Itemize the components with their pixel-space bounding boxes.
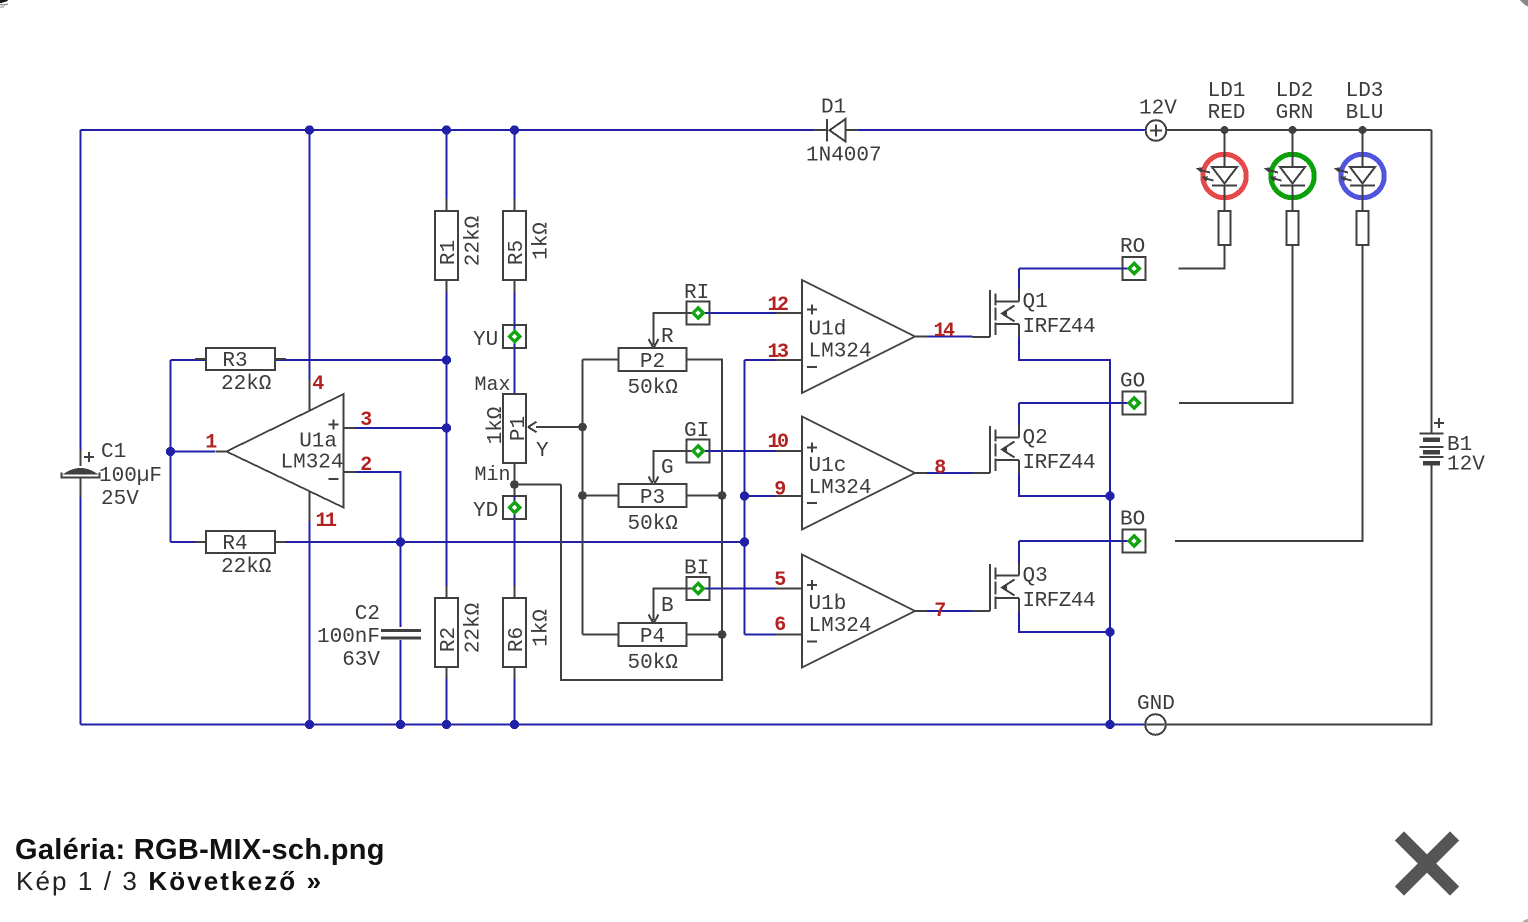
wire R6 bottom <box>514 667 516 725</box>
svg-text:YU: YU <box>473 329 498 352</box>
svg-text:10: 10 <box>767 431 788 454</box>
P1 wiper arrowhead <box>528 422 537 432</box>
svg-text:BI: BI <box>684 558 709 581</box>
LED series resistor for LD2 <box>1287 211 1299 245</box>
op-amp U1b <box>776 555 927 668</box>
wire top 12V bus left of D1 <box>81 129 816 131</box>
svg-text:R: R <box>661 326 674 349</box>
junction Y net / P3 left <box>578 491 587 500</box>
junction source bus / Q3 <box>1105 627 1114 636</box>
svg-text:1N4007: 1N4007 <box>806 145 882 168</box>
junction inverting bus / pin9 <box>740 491 749 500</box>
svg-text:13: 13 <box>767 341 788 364</box>
wire Q3 drain up <box>1018 541 1020 563</box>
svg-text:12V: 12V <box>1447 454 1485 477</box>
svg-text:Y: Y <box>536 440 549 463</box>
svg-text:U1c: U1c <box>809 455 847 478</box>
junction pin3 / node A <box>442 423 451 432</box>
resistor R4 <box>195 531 286 579</box>
svg-text:P4: P4 <box>640 626 665 649</box>
wire YU pad to P1 Max <box>514 348 516 394</box>
junction bottom bus / R2 <box>442 720 451 729</box>
svg-text:P2: P2 <box>640 351 665 374</box>
wire U1a pin3 to node A <box>355 427 447 429</box>
svg-text:LD3: LD3 <box>1346 80 1384 103</box>
wire LD2 resistor to GO net <box>1179 245 1293 403</box>
LED LD2 <box>1264 80 1314 245</box>
wire P4 left <box>583 634 619 636</box>
svg-text:50kΩ: 50kΩ <box>628 377 678 400</box>
supply symbol 12V <box>1139 98 1177 141</box>
junction LED rail LD1 <box>1221 126 1229 134</box>
resistor R2 <box>435 586 486 679</box>
svg-text:YD: YD <box>473 500 498 523</box>
svg-text:R2: R2 <box>438 627 461 652</box>
svg-text:6: 6 <box>774 614 785 637</box>
wire P1 wiper Y node <box>536 426 583 428</box>
transistor Q2 <box>973 426 1020 473</box>
transistor Q1 <box>973 290 1020 337</box>
wire Q2 drain to GO pad <box>1019 402 1123 404</box>
resistor R6 <box>503 586 554 679</box>
resistor R1 <box>435 199 486 292</box>
potentiometer P3 <box>619 457 687 536</box>
wire R3-R4 left vertical <box>170 360 172 542</box>
junction P1 Min node <box>510 480 519 489</box>
svg-text:9: 9 <box>774 479 785 502</box>
op-amp U1c <box>776 417 927 530</box>
wire P3 right <box>687 495 723 497</box>
svg-text:11: 11 <box>315 510 337 533</box>
svg-text:R3: R3 <box>222 350 247 373</box>
svg-text:22kΩ: 22kΩ <box>463 216 486 266</box>
svg-text:IRFZ44: IRFZ44 <box>1023 316 1096 339</box>
svg-text:U1d: U1d <box>809 319 847 342</box>
svg-text:GND: GND <box>1137 693 1175 716</box>
pad YU <box>473 325 526 352</box>
wire GI pad to U1c pin10 <box>710 450 776 452</box>
svg-text:1kΩ: 1kΩ <box>531 222 554 260</box>
wire Q1 source to source bus <box>1019 338 1110 725</box>
wire P4 right <box>687 634 723 636</box>
close button X <box>1387 823 1467 903</box>
transistor Q3 <box>973 564 1020 611</box>
wire bottom GND bus <box>81 724 1145 726</box>
wire R5 to YU pad <box>514 280 516 325</box>
capacitor C2 <box>317 603 421 672</box>
resistor R3 <box>195 348 286 396</box>
svg-text:LM324: LM324 <box>809 615 872 638</box>
svg-text:12: 12 <box>767 294 788 317</box>
wire top bus D1 to 12V symbol <box>858 129 1146 131</box>
svg-text:1kΩ: 1kΩ <box>485 407 508 445</box>
wiper arrowheads P2 P3 P4 <box>649 339 659 348</box>
pad YD <box>473 496 526 523</box>
svg-text:LD2: LD2 <box>1276 80 1314 103</box>
LED LD3 <box>1334 80 1384 245</box>
junction top bus / R1 <box>442 125 451 134</box>
wire Q2 source stub <box>1018 460 1020 474</box>
wire U1a pin4 stub <box>309 380 311 412</box>
op-amp U1d <box>776 280 927 393</box>
wire LD3 resistor to BO net <box>1175 245 1363 541</box>
wire R1 bottom / node A column <box>446 280 448 598</box>
wire Min node to pot frame <box>515 484 562 486</box>
svg-text:50kΩ: 50kΩ <box>628 652 678 675</box>
wire U1d pin14 to Q1 gate <box>927 336 973 338</box>
wire battery positive <box>1431 130 1433 433</box>
gallery title text <box>15 834 385 867</box>
svg-text:2: 2 <box>360 454 371 477</box>
wire U1a pin2 down to feedback net <box>355 472 401 542</box>
svg-text:IRFZ44: IRFZ44 <box>1023 590 1096 613</box>
wire Q2 drain stub <box>1018 425 1020 438</box>
wire U1b pin6 <box>745 634 777 636</box>
svg-text:8: 8 <box>934 457 945 480</box>
svg-text:LM324: LM324 <box>809 341 872 364</box>
svg-text:R5: R5 <box>506 240 529 265</box>
svg-text:7: 7 <box>934 600 945 623</box>
junction inverting bus / feedback net <box>740 537 749 546</box>
svg-text:4: 4 <box>312 373 324 396</box>
svg-text:1kΩ: 1kΩ <box>531 609 554 647</box>
junction pin2 / feedback net <box>396 537 405 546</box>
svg-text:GRN: GRN <box>1276 102 1314 125</box>
svg-text:G: G <box>661 457 674 480</box>
wire BI pad to U1b pin5 <box>710 588 776 590</box>
battery B1 <box>1420 418 1445 463</box>
svg-text:IRFZ44: IRFZ44 <box>1023 452 1096 475</box>
pad GO <box>1120 371 1146 415</box>
svg-text:BLU: BLU <box>1346 102 1384 125</box>
wire U1a pin11 to bottom bus <box>309 521 311 725</box>
wire Q1 drain to RO pad <box>1019 268 1123 270</box>
svg-text:GO: GO <box>1120 371 1145 394</box>
potentiometer P2 <box>619 326 687 400</box>
capacitor C1 <box>62 441 163 511</box>
wire R4 right feedback net <box>275 541 745 543</box>
diode D1 <box>806 97 882 168</box>
svg-text:Q2: Q2 <box>1023 427 1048 450</box>
wire Q2 source to source bus <box>1019 474 1110 497</box>
svg-text:63V: 63V <box>342 649 380 672</box>
svg-text:P3: P3 <box>640 487 665 510</box>
wire R5 top <box>514 130 516 211</box>
svg-text:Max: Max <box>474 374 510 397</box>
ground symbol GND <box>1137 693 1175 735</box>
page corner artifact bottom-right <box>1522 919 1528 922</box>
wire Q1 drain stub <box>1018 289 1020 302</box>
svg-text:3: 3 <box>360 409 371 432</box>
wire C2 top <box>400 542 402 627</box>
svg-text:LM324: LM324 <box>280 452 343 475</box>
svg-text:U1b: U1b <box>809 593 847 616</box>
resistor R5 <box>503 199 554 292</box>
wire U1c pin8 to Q2 gate <box>927 472 973 474</box>
wire U1d pin13 <box>745 359 777 361</box>
svg-text:LM324: LM324 <box>809 477 872 500</box>
svg-text:Q3: Q3 <box>1023 565 1048 588</box>
wire BI pad to P4 wiper <box>654 589 687 621</box>
svg-text:25V: 25V <box>101 488 139 511</box>
page corner artifact top-right <box>1520 0 1528 7</box>
potentiometer P4 <box>619 595 687 675</box>
svg-text:BO: BO <box>1120 509 1145 532</box>
wire U1b pin7 to Q3 gate <box>927 610 973 612</box>
pad GI <box>684 420 710 463</box>
wire Q1 source stub <box>1018 324 1020 338</box>
junction Min frame / P3 right <box>718 491 727 500</box>
junction Min frame / P4 right <box>718 630 727 639</box>
wire GI pad to P3 wiper <box>654 451 687 482</box>
svg-text:RI: RI <box>684 282 709 305</box>
svg-text:100nF: 100nF <box>317 626 380 649</box>
svg-text:P1: P1 <box>508 416 531 441</box>
wire U1a pin11 stub <box>309 490 311 521</box>
svg-text:GI: GI <box>684 420 709 443</box>
junction top bus / U1a pin4 <box>305 125 314 134</box>
wire RI pad to U1d pin12 <box>710 312 776 314</box>
junction LED rail LD3 <box>1359 126 1367 134</box>
wire U1a output pin1 <box>171 451 216 453</box>
wire R4 left <box>171 541 207 543</box>
svg-text:Q1: Q1 <box>1023 291 1048 314</box>
wire R2 bottom <box>446 667 448 725</box>
wire U1a pin4 to top bus <box>309 130 311 380</box>
junction source bus / bottom bus <box>1105 720 1114 729</box>
svg-text:U1a: U1a <box>299 431 337 454</box>
svg-text:100µF: 100µF <box>99 465 162 488</box>
svg-text:R4: R4 <box>222 533 247 556</box>
wire P2 left <box>583 359 619 361</box>
svg-text:C2: C2 <box>355 603 380 626</box>
junction source bus / Q2 <box>1105 491 1114 500</box>
svg-text:R1: R1 <box>438 240 461 265</box>
pad RI <box>684 282 710 325</box>
wire R3 left <box>171 359 207 361</box>
junction top bus / R5 <box>510 125 519 134</box>
wire Q3 source stub <box>1018 598 1020 612</box>
page corner artifact top-left <box>0 0 9 3</box>
junction bottom bus / pin11 <box>305 720 314 729</box>
pad BI <box>684 558 710 601</box>
wire C1 left vertical to bottom bus <box>80 497 82 725</box>
svg-text:22kΩ: 22kΩ <box>221 373 271 396</box>
wire Q2 drain up <box>1018 403 1020 425</box>
junction R3 / node A <box>442 355 451 364</box>
svg-text:C1: C1 <box>101 441 126 464</box>
svg-text:RO: RO <box>1120 236 1145 259</box>
wire C2 bottom <box>400 640 402 725</box>
wire battery negative to GND <box>1166 465 1432 725</box>
svg-text:5: 5 <box>774 569 785 592</box>
gallery navigation text <box>16 866 323 897</box>
svg-text:B: B <box>661 595 674 618</box>
wire LED supply rail <box>1167 129 1432 131</box>
wire R3 right to node A <box>275 359 447 361</box>
junction bottom bus / C2 <box>396 720 405 729</box>
wire Q3 drain stub <box>1018 563 1020 576</box>
svg-text:Min: Min <box>474 464 510 487</box>
junction Y net / P1 wiper <box>578 423 587 432</box>
wire YD pad to R6 <box>514 519 516 598</box>
junction node pin1 <box>166 447 175 456</box>
wire C1 left vertical from top bus <box>80 130 82 450</box>
LED series resistor for LD3 <box>1357 211 1369 245</box>
svg-text:R6: R6 <box>506 627 529 652</box>
pad RO <box>1120 236 1146 280</box>
svg-text:22kΩ: 22kΩ <box>221 556 271 579</box>
wire Q1 drain up <box>1018 269 1020 290</box>
op-amp U1a <box>216 394 356 508</box>
svg-text:D1: D1 <box>821 97 846 120</box>
wire Q3 source to source bus <box>1019 612 1110 633</box>
wire pot frame Min net <box>561 360 722 681</box>
wire LD1 resistor to RO net <box>1179 245 1225 269</box>
wire P3 left <box>583 495 619 497</box>
wire P1 Min to YD pad <box>514 463 516 496</box>
svg-text:LD1: LD1 <box>1208 80 1246 103</box>
LED LD1 <box>1196 80 1246 245</box>
wire R1 top <box>446 130 448 211</box>
wire inverting-input bus vertical <box>744 360 746 635</box>
svg-text:14: 14 <box>933 320 955 343</box>
wire RI pad to P2 wiper <box>654 313 687 345</box>
junction bottom bus / R6 <box>510 720 519 729</box>
svg-text:50kΩ: 50kΩ <box>628 513 678 536</box>
junction LED rail LD2 <box>1289 126 1297 134</box>
wire Q3 drain to BO pad <box>1019 540 1123 542</box>
svg-text:1: 1 <box>205 432 217 455</box>
svg-text:12V: 12V <box>1139 98 1177 121</box>
LED series resistor for LD1 <box>1219 211 1231 245</box>
pad BO <box>1120 509 1146 553</box>
potentiometer P1 <box>474 374 549 487</box>
wire pot left-side vertical Y net <box>582 360 584 635</box>
svg-text:RED: RED <box>1208 102 1246 125</box>
svg-text:22kΩ: 22kΩ <box>463 603 486 653</box>
wire U1c pin9 <box>745 495 777 497</box>
